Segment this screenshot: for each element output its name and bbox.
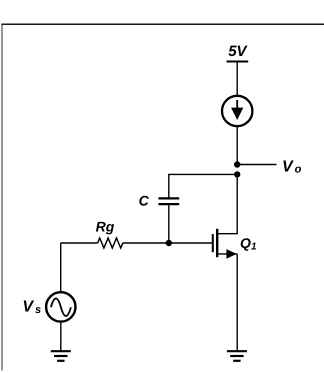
svg-text:1: 1 (251, 242, 257, 253)
capacitor C plates (158, 198, 179, 204)
svg-text:s: s (35, 304, 41, 316)
svg-text:C: C (139, 192, 150, 208)
transistor Q1 source arrow (226, 249, 236, 259)
current source I1 arrow (231, 100, 243, 120)
transistor Q1 gate bar (212, 234, 214, 252)
svg-text:Rg: Rg (96, 218, 115, 234)
wire source to ground (236, 254, 238, 351)
ground (transistor source) (227, 351, 247, 361)
wire gate node down to Vs source (60, 243, 62, 292)
wire 5V bar to current source (236, 62, 238, 97)
svg-text:V: V (22, 299, 34, 316)
gate node junction dot (166, 240, 172, 246)
wire resistor to gate (123, 242, 212, 244)
svg-text:Q: Q (240, 235, 251, 251)
svg-text:o: o (295, 163, 302, 175)
svg-text:5V: 5V (228, 43, 248, 60)
wire node to Vo label (237, 164, 276, 166)
node Vo junction dot (234, 161, 240, 167)
power supply 5V bar (227, 61, 249, 63)
voltage source Vs circle (46, 292, 75, 321)
transistor Q1 label (240, 235, 257, 253)
junction dot (drain node to capacitor branch) (234, 171, 240, 177)
voltage source Vs label (22, 299, 41, 316)
transistor Q1 drain lead (217, 174, 237, 233)
wire Vs to resistor Rg (61, 242, 98, 244)
node Vo label (282, 158, 302, 175)
ground (Vs) (51, 351, 71, 361)
current source I1 circle (222, 96, 252, 126)
frame borders (decorative) (1, 24, 3, 370)
wire Vs to ground (60, 322, 62, 351)
transistor Q1 channel bar (216, 229, 218, 257)
transistor Q1 source lead (217, 253, 237, 255)
wire current source to node Vo (236, 126, 238, 164)
wire junction to capacitor branch (169, 174, 237, 197)
svg-text:V: V (282, 158, 294, 175)
resistor Rg zigzag (98, 238, 123, 248)
voltage source Vs sine wave (51, 298, 71, 316)
wire capacitor to gate node (168, 205, 170, 243)
